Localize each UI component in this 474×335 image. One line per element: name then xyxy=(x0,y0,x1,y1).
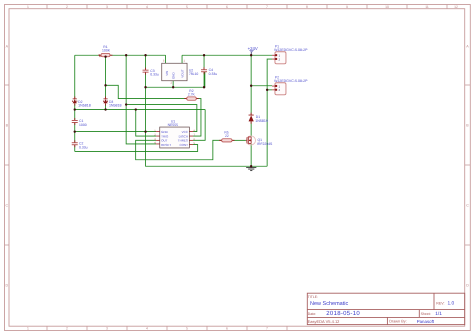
wire: P1 pin2 / P2 pin2 drop to ground xyxy=(267,59,272,166)
svg-text:RESET: RESET xyxy=(161,143,171,147)
svg-text:1: 1 xyxy=(27,5,29,9)
svg-text:2.7K: 2.7K xyxy=(188,92,196,96)
wire: U2 VIN lead xyxy=(165,55,167,63)
svg-text:New Schematic: New Schematic xyxy=(310,301,348,307)
wire: +24V column to D1 xyxy=(250,55,252,115)
diode D1 xyxy=(249,113,268,124)
connector P1 xyxy=(272,44,308,64)
svg-text:2018-05-10: 2018-05-10 xyxy=(326,310,360,317)
svg-text:6: 6 xyxy=(226,5,228,9)
svg-text:4: 4 xyxy=(146,327,148,331)
wire: CONT wrap to C2 xyxy=(75,145,198,152)
svg-text:4: 4 xyxy=(146,5,148,9)
wire: R1 wiper drop xyxy=(105,57,107,99)
frame ticks left xyxy=(5,85,10,245)
svg-text:D: D xyxy=(5,284,8,288)
svg-text:Date:: Date: xyxy=(308,312,316,316)
svg-text:2: 2 xyxy=(66,327,68,331)
wire: C4 column xyxy=(203,55,205,87)
svg-text:5: 5 xyxy=(186,327,188,331)
svg-text:CONT: CONT xyxy=(179,143,188,147)
frame ticks right xyxy=(465,85,471,245)
junction: D2 cathode node xyxy=(74,108,76,110)
wire: R5 to Q1 gate xyxy=(232,139,246,141)
capacitor C1 xyxy=(72,118,87,127)
svg-text:C: C xyxy=(466,204,469,208)
svg-text:D: D xyxy=(466,284,469,288)
junction: P1 pin2 drop / P2 pin2 xyxy=(266,89,268,91)
junction: power ground node xyxy=(250,165,252,167)
diode D2 xyxy=(73,96,91,107)
svg-text:REV:: REV: xyxy=(436,301,444,305)
svg-text:1N5818: 1N5818 xyxy=(109,104,122,108)
svg-text:8: 8 xyxy=(306,5,308,9)
svg-text:10: 10 xyxy=(385,5,389,9)
svg-text:7: 7 xyxy=(266,327,268,331)
svg-text:Sheet:: Sheet: xyxy=(421,312,431,316)
wire: top rail right segment (U2 VOUT to P1 pin1) xyxy=(182,54,272,56)
svg-text:1.0: 1.0 xyxy=(448,301,455,307)
wire: D1 anode to Q1 drain xyxy=(250,121,252,136)
wire: U2 GND lead to ground bus xyxy=(172,81,174,88)
junction: C1/C2 midpoint GND node xyxy=(74,130,76,132)
capacitor C4 xyxy=(201,67,217,76)
wire: D2 bottom to C1 and C2 column xyxy=(74,103,76,151)
capacitor C3 xyxy=(143,68,159,77)
svg-text:Drawn By:: Drawn By: xyxy=(389,320,407,324)
junction: +24V column / P2 pin1 branch xyxy=(250,85,252,87)
svg-text:0.33u: 0.33u xyxy=(150,73,159,77)
wire: THRES drop right of U1 xyxy=(193,110,205,141)
svg-text:IRF2204S: IRF2204S xyxy=(257,142,273,146)
wire: Q1 source to ground xyxy=(250,144,252,166)
regulator U2 78L10 xyxy=(162,60,199,85)
wire: D2/D3 cathode net horizontal xyxy=(75,109,205,111)
wire: U2 VOUT lead xyxy=(181,55,183,63)
timer U1 NE555 xyxy=(154,119,195,148)
frame column numbers top xyxy=(27,5,458,9)
svg-text:VOUT: VOUT xyxy=(181,69,185,78)
wire: OUT wrap to R5 xyxy=(136,140,222,159)
ground xyxy=(246,168,256,171)
svg-text:2: 2 xyxy=(66,5,68,9)
svg-text:GND: GND xyxy=(172,72,176,80)
wire: bypass ground bus xyxy=(146,72,205,87)
title block xyxy=(307,293,464,324)
junction: ground bus / C4 column xyxy=(203,86,205,88)
wire: TRIG riser xyxy=(136,110,156,137)
resistor R1 (potentiometer) xyxy=(99,45,113,57)
svg-text:9: 9 xyxy=(346,5,348,9)
wire: wiper branch to R2 xyxy=(106,85,187,98)
wire: GND row to C1/C2 midpoint xyxy=(75,131,156,133)
resistor R5 xyxy=(219,131,234,142)
power flag +24V xyxy=(248,46,258,55)
MOSFET Q1 xyxy=(246,136,273,146)
svg-text:WJ2EDGVC-5.08-2P: WJ2EDGVC-5.08-2P xyxy=(274,48,308,52)
wire: signal ground column C3 to power ground xyxy=(146,55,268,166)
svg-text:1N5819: 1N5819 xyxy=(255,119,268,123)
junction: ground bus / C3 column xyxy=(144,86,146,88)
svg-text:100K: 100K xyxy=(102,49,111,53)
junction: rail / C4 column xyxy=(203,54,205,56)
junction: GND row / C3 ground drop xyxy=(144,130,146,132)
svg-text:22: 22 xyxy=(225,134,229,138)
junction: rail / +24V flag xyxy=(250,54,252,56)
junction: wiper branch to D3 and R2 xyxy=(104,84,106,86)
svg-text:78L10: 78L10 xyxy=(189,72,199,76)
wire: left vertical drop from rail to D2 xyxy=(74,55,76,98)
svg-text:TITLE:: TITLE: xyxy=(308,295,318,299)
wire: top rail middle segment (R1 right to U2 VIN) xyxy=(110,54,166,56)
svg-text:Panasoft: Panasoft xyxy=(417,319,435,324)
wire: VCC branch xyxy=(126,105,197,132)
svg-text:1: 1 xyxy=(27,327,29,331)
title block texts xyxy=(308,295,455,324)
diode D3 xyxy=(103,96,121,107)
wire: D3 bottom to THRES/TRIG net xyxy=(105,103,107,109)
svg-text:6: 6 xyxy=(226,327,228,331)
wire: rail drop to RESET xyxy=(126,55,156,144)
junction: TRIG riser on D2/D3 net xyxy=(135,108,137,110)
junction: rail / RESET drop xyxy=(125,54,127,56)
junction: rail / C3 column xyxy=(144,54,146,56)
svg-text:0.33u: 0.33u xyxy=(79,145,88,149)
svg-text:7: 7 xyxy=(266,5,268,9)
frame column numbers bottom xyxy=(27,327,268,331)
capacitor C2 xyxy=(72,140,88,149)
svg-text:5: 5 xyxy=(186,5,188,9)
svg-text:WJ2EDGVC-5.08-2P: WJ2EDGVC-5.08-2P xyxy=(274,79,308,83)
svg-text:1N5818: 1N5818 xyxy=(78,104,91,108)
frame ticks bottom xyxy=(47,326,287,330)
frame row letters left xyxy=(5,45,8,288)
connector P2 xyxy=(272,75,308,94)
wire: R2 to DISCH xyxy=(193,99,201,137)
junction: ground bus / U2 GND xyxy=(172,86,174,88)
wire: +24V top rail left segment xyxy=(75,54,101,56)
svg-text:12: 12 xyxy=(454,5,458,9)
svg-text:11: 11 xyxy=(425,5,429,9)
svg-text:EasyEDA V5.4.12: EasyEDA V5.4.12 xyxy=(308,319,341,324)
junction: D3 cathode node xyxy=(104,108,106,110)
svg-text:3: 3 xyxy=(106,327,108,331)
svg-text:0.33u: 0.33u xyxy=(209,72,218,76)
svg-text:NE555: NE555 xyxy=(168,123,178,127)
junction: RESET drop / VCC branch xyxy=(125,103,127,105)
svg-text:3: 3 xyxy=(106,5,108,9)
svg-text:1000: 1000 xyxy=(79,123,87,127)
svg-text:VIN: VIN xyxy=(165,71,169,76)
wire: branch to P2 pin1 xyxy=(251,85,272,87)
junction: R1 wiper tap xyxy=(104,56,106,58)
svg-text:C: C xyxy=(5,204,8,208)
frame row letters right xyxy=(466,45,469,288)
frame ticks top xyxy=(47,5,447,9)
resistor R2 xyxy=(184,89,199,101)
svg-text:1/1: 1/1 xyxy=(435,311,442,317)
